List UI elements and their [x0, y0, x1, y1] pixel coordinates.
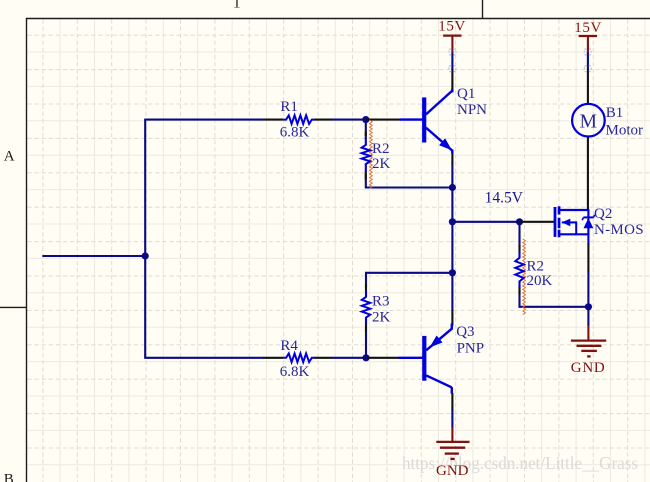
wire: input net to trunk — [42, 255, 145, 257]
pin: R3 pins — [365, 284, 367, 292]
svg-text:Q1: Q1 — [457, 86, 475, 102]
wire: R4 to Q3 base node — [332, 357, 367, 359]
svg-text:N-MOS: N-MOS — [594, 222, 644, 238]
svg-text:NPN: NPN — [457, 102, 487, 118]
svg-text:14.5V: 14.5V — [485, 190, 524, 207]
svg-text:1: 1 — [233, 0, 241, 12]
pin: Q2 source pin — [587, 244, 589, 273]
resistor R4 — [283, 354, 315, 363]
svg-text:R3: R3 — [372, 294, 390, 310]
svg-text:B: B — [4, 472, 14, 482]
wire: R2 top stub — [365, 120, 367, 136]
ground GND right — [571, 325, 606, 376]
pin: R1 pin1 — [263, 119, 283, 121]
compile mask squiggle at R2 2K — [370, 120, 373, 188]
wire: 15V left to Q1 collector — [451, 52, 453, 70]
resistor R1 — [283, 115, 315, 124]
pin: Q2 gate pin — [520, 221, 554, 223]
svg-text:R2: R2 — [527, 258, 545, 274]
pin: Q3 collector pin bottom — [451, 393, 453, 410]
compile mask squiggle at R2 20K — [523, 239, 526, 315]
wire: R3 top wire — [366, 273, 452, 288]
svg-text:15V: 15V — [438, 19, 466, 35]
mosfet Q2 N-MOS — [554, 206, 595, 237]
svg-text:PNP: PNP — [457, 340, 485, 356]
resistor R2 2K — [365, 138, 367, 145]
node: 14.5V junction — [449, 218, 456, 225]
wire: 14.5V net to Q2 gate — [452, 221, 520, 223]
wire: trunk to R4 — [144, 357, 263, 359]
pin: R1 pin2 — [314, 119, 332, 121]
node: R2 20K junction — [516, 218, 523, 225]
node: R3 junction — [449, 269, 456, 276]
transistor Q1 NPN — [400, 89, 452, 154]
svg-text:20K: 20K — [527, 273, 553, 289]
pin: Q1 emitter pin — [451, 150, 453, 164]
svg-text:R4: R4 — [280, 338, 298, 354]
wire: Q2 source down — [587, 272, 589, 307]
svg-text:M: M — [580, 111, 597, 132]
wire: R3 bottom to base wire — [365, 327, 367, 359]
node: input junction — [142, 252, 149, 259]
svg-text:R1: R1 — [280, 99, 298, 115]
power port 15V left — [438, 19, 466, 53]
node: R3 bottom junction — [362, 354, 369, 361]
pin: Q1 base pin — [366, 119, 400, 121]
svg-text:A: A — [4, 149, 15, 165]
svg-text:Motor: Motor — [606, 123, 644, 139]
svg-text:6.8K: 6.8K — [280, 125, 310, 141]
svg-text:Q2: Q2 — [594, 206, 612, 222]
svg-text:2K: 2K — [372, 310, 391, 326]
svg-text:15V: 15V — [574, 20, 602, 36]
resistor R3 — [365, 291, 367, 298]
pin: motor pin2 / Q2 drain pin — [587, 136, 589, 209]
motor B1 — [572, 104, 605, 137]
ground GND bottom — [436, 427, 470, 479]
wire: source node to GND — [587, 307, 589, 326]
svg-text:B1: B1 — [606, 105, 624, 121]
svg-text:6.8K: 6.8K — [280, 364, 310, 380]
pin: Q1 collector pin — [451, 69, 453, 91]
svg-text:Q3: Q3 — [456, 324, 474, 340]
pin: R2 20K pins — [518, 245, 520, 253]
wire: vertical trunk — [144, 120, 146, 358]
pin: motor pin1 — [587, 69, 589, 104]
node: emitter junction — [449, 184, 456, 191]
wire: R2 20K top stub — [518, 222, 520, 249]
power port 15V right — [574, 20, 602, 53]
wire: Q1 emitter vertical down to Q3 — [451, 163, 453, 311]
wire: Q2 source stub — [587, 234, 589, 244]
pin: Q3 base pin — [366, 357, 398, 359]
transistor Q3 PNP — [398, 323, 451, 393]
svg-text:GND: GND — [571, 360, 606, 376]
svg-text:2K: 2K — [372, 156, 391, 172]
tick marks on 15V left stem — [449, 49, 456, 72]
wire: R2 bottom to emitter node — [366, 174, 453, 188]
svg-text:GND: GND — [436, 463, 469, 479]
wire: Q3 emitter to GND — [451, 410, 453, 428]
wire: 15V right to motor — [587, 52, 589, 69]
pin: R4 pin2 — [314, 357, 332, 359]
tick marks on 15V right stem — [584, 49, 591, 72]
pin: R4 pin1 — [263, 357, 283, 359]
node: source-gnd junction — [585, 303, 592, 310]
node: R2 top junction — [362, 116, 369, 123]
svg-text:R2: R2 — [372, 141, 390, 157]
wire: R2 20K bottom to source node — [520, 290, 590, 307]
pin: R2 2K pins — [365, 132, 367, 140]
wire: trunk to R1 — [144, 119, 263, 121]
pin: Q3 emitter pin top — [451, 310, 453, 326]
resistor R2 20K — [518, 252, 520, 259]
wire: R1 to Q1 base node — [332, 119, 367, 121]
